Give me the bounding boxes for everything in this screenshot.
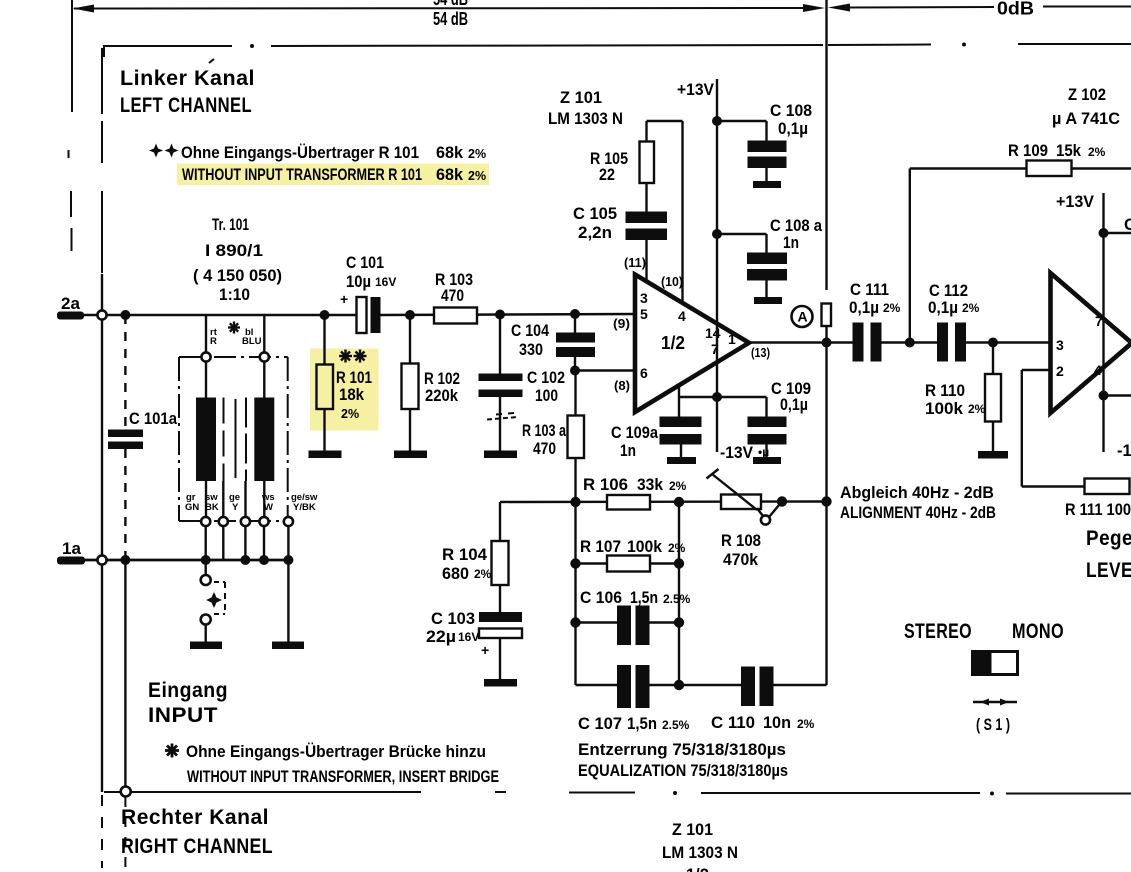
bridge dashed bracket: [214, 582, 225, 614]
svg-text:2%: 2%: [962, 301, 980, 315]
svg-text:R 103 a: R 103 a: [522, 422, 567, 440]
resistor R111: [1065, 479, 1131, 520]
resistor R105: [590, 121, 654, 212]
pin labels Z102: [1056, 313, 1103, 379]
junction dot C107 row: [674, 680, 684, 690]
highlight box R101: [310, 349, 379, 431]
connector pin circle bottom border: [121, 787, 131, 797]
svg-text:Z 101: Z 101: [560, 89, 602, 107]
secondary leads down to bus: [206, 526, 289, 560]
feedback vertical right x679: [678, 502, 680, 685]
svg-text:C 109a: C 109a: [611, 424, 659, 442]
svg-text:BLU: BLU: [242, 336, 262, 347]
svg-text:2.5%: 2.5%: [662, 718, 690, 732]
svg-text:C 105: C 105: [573, 205, 617, 223]
resistor R107: [576, 538, 686, 572]
junction dot R110: [988, 338, 998, 348]
svg-text:2%: 2%: [968, 402, 986, 416]
svg-text:2: 2: [1056, 363, 1064, 379]
svg-text:7: 7: [1095, 313, 1103, 329]
ground below C103: [484, 679, 517, 687]
svg-text:LM 1303 N: LM 1303 N: [548, 110, 623, 128]
svg-text:C 108: C 108: [770, 102, 812, 120]
svg-text:100: 100: [535, 387, 558, 405]
note Ohne Eingangs-Uebertrager R101 68k 2%: [181, 143, 486, 162]
resistor R109: [1008, 142, 1106, 176]
terminal circle bl top: [260, 352, 269, 361]
svg-text:16V: 16V: [458, 630, 479, 644]
svg-text:3: 3: [640, 290, 648, 306]
capacitor C110: [679, 667, 827, 733]
junction dot C104 node: [570, 309, 580, 319]
correction squiggle below C102: [487, 413, 518, 420]
svg-text:470: 470: [441, 287, 464, 305]
+13V rail Z102: [1102, 193, 1104, 396]
svg-text:68k: 68k: [436, 166, 464, 184]
svg-text:2%: 2%: [474, 567, 492, 581]
svg-text:R 111 100: R 111 100: [1065, 501, 1131, 519]
junction dot rail bottom: [712, 392, 722, 402]
text Eingang / INPUT: [148, 678, 228, 727]
junction dot rail C108a: [712, 229, 722, 239]
svg-text:C 107: C 107: [578, 715, 622, 733]
svg-text:1: 1: [728, 331, 736, 347]
pin labels op-amp Z101: [613, 256, 770, 393]
svg-text:470: 470: [533, 440, 556, 458]
capacitor C111: [849, 281, 901, 362]
dimension line 54 dB with arrows: [73, 4, 826, 13]
transformer primary lead rt: [205, 315, 207, 398]
ground below bridge: [190, 642, 222, 650]
svg-text:INPUT: INPUT: [148, 703, 218, 727]
svg-text:Eingang: Eingang: [148, 678, 228, 702]
capacitor C103 electrolytic: [426, 610, 522, 679]
svg-text:GN: GN: [185, 502, 199, 513]
dimension line 0 dB with arrow: [828, 4, 1131, 12]
bridge star symbol: [206, 592, 222, 608]
text Linker Kanal / LEFT CHANNEL: [120, 59, 255, 117]
connector line vertical: [101, 274, 103, 868]
stars above R101: [339, 350, 367, 363]
bridge (Bruecke) with circles: [201, 560, 211, 642]
svg-text:1n: 1n: [783, 234, 799, 252]
junction dot rail C108: [712, 116, 722, 126]
text Rechter Kanal / RIGHT CHANNEL: [121, 805, 273, 858]
svg-text:0,1µ: 0,1µ: [780, 396, 808, 414]
svg-text:22: 22: [599, 166, 615, 184]
ground below R110: [978, 451, 1008, 459]
capacitor C112: [928, 282, 980, 362]
svg-text:2a: 2a: [61, 294, 80, 313]
svg-text:2%: 2%: [1088, 145, 1106, 159]
resistor R102: [402, 315, 461, 451]
svg-text:2%: 2%: [341, 407, 359, 421]
transformer winding left: [196, 398, 216, 482]
svg-text:Y: Y: [232, 502, 239, 513]
svg-text:+13V: +13V: [677, 81, 714, 99]
junction dot R109 branch: [905, 338, 915, 348]
note diamonds: [149, 144, 179, 158]
svg-text:100k: 100k: [925, 400, 964, 418]
svg-text:470k: 470k: [723, 551, 759, 569]
label Z101 bottom: [662, 821, 738, 872]
capacitor C106: [576, 589, 691, 645]
capacitor C102: [479, 315, 566, 451]
svg-text:10µ: 10µ: [346, 273, 371, 291]
left channel dashed border box: [102, 43, 1131, 796]
node A circle: [792, 306, 813, 327]
label rt/R: [210, 327, 218, 347]
switch motion arrow: [973, 699, 1017, 706]
resistor R104: [442, 502, 509, 612]
svg-text:STEREO: STEREO: [904, 619, 972, 643]
svg-text:( S 1 ): ( S 1 ): [976, 716, 1010, 734]
svg-text:3: 3: [1056, 337, 1064, 353]
svg-text:I 890/1: I 890/1: [205, 242, 263, 260]
svg-text:(9): (9): [613, 317, 630, 331]
svg-text:LEFT CHANNEL: LEFT CHANNEL: [120, 93, 252, 117]
ground below C108: [753, 181, 781, 188]
svg-text:1n: 1n: [620, 442, 636, 460]
ground below R102: [394, 451, 427, 459]
svg-text:100k: 100k: [627, 538, 663, 556]
transformer secondary leads to bottom terminals: [206, 481, 264, 522]
svg-text:Tr. 101: Tr. 101: [212, 216, 249, 234]
svg-text:2%: 2%: [668, 541, 686, 555]
text STEREO MONO: [904, 619, 1064, 643]
svg-text:33k: 33k: [637, 476, 664, 494]
svg-text:LM 1303 N: LM 1303 N: [662, 844, 738, 862]
svg-text:4: 4: [1094, 362, 1102, 378]
secondary terminal circles: [201, 517, 293, 526]
junction dots R107 row: [570, 558, 684, 568]
wire rail2 bottom right: [1104, 394, 1131, 396]
label Z101: [548, 89, 623, 128]
svg-text:C 101: C 101: [346, 254, 384, 272]
svg-text:+: +: [481, 642, 489, 658]
svg-text:C 101a: C 101a: [129, 410, 178, 428]
highlighted note WITHOUT INPUT TRANSFORMER R101 68k 2%: [177, 164, 489, 186]
bridge note star: [165, 744, 179, 758]
svg-text:C 103: C 103: [431, 610, 475, 628]
resistor R103: [434, 271, 477, 324]
svg-text:(13): (13): [751, 346, 770, 360]
svg-text:5: 5: [640, 306, 648, 322]
transformer star symbol: [228, 322, 240, 334]
svg-text:(8): (8): [614, 379, 630, 393]
potentiometer R108: [707, 469, 783, 569]
svg-text:Rechter Kanal: Rechter Kanal: [121, 805, 269, 829]
label bl/BLU: [242, 327, 262, 347]
svg-text:Linker Kanal: Linker Kanal: [120, 66, 255, 90]
connector pin circle 1a: [97, 555, 106, 564]
junction dot feedback: [821, 496, 831, 506]
capacitor C101 electrolytic: [340, 254, 396, 333]
label Z102: [1052, 86, 1120, 128]
feedback vertical left x575: [574, 502, 576, 685]
wire main to op-amp: [380, 314, 635, 315]
svg-text:14: 14: [705, 325, 721, 341]
resistor R106: [583, 476, 687, 510]
svg-text:(10): (10): [661, 275, 683, 289]
svg-text:Abgleich 40Hz - 2dB: Abgleich 40Hz - 2dB: [840, 484, 994, 502]
transformer Tr101 dash-dot box: [179, 357, 288, 521]
svg-text:Y/BK: Y/BK: [293, 502, 316, 513]
feedback wire row: [500, 500, 827, 503]
svg-text:WITHOUT INPUT TRANSFORMER R 10: WITHOUT INPUT TRANSFORMER R 101: [182, 166, 422, 184]
svg-text:LEVE: LEVE: [1086, 558, 1131, 582]
switch S1: [972, 651, 1018, 675]
svg-text:WITHOUT INPUT TRANSFORMER, INS: WITHOUT INPUT TRANSFORMER, INSERT BRIDGE: [187, 768, 499, 786]
svg-text:1/2: 1/2: [661, 332, 685, 353]
transformer primary lead bl: [263, 315, 265, 398]
svg-text:MONO: MONO: [1012, 619, 1064, 643]
resistor R103a: [522, 371, 584, 503]
wire pin6 row: [575, 369, 635, 371]
junction dot 1a/C101a: [120, 555, 130, 565]
wire C111 to C112: [882, 341, 938, 343]
svg-text:R: R: [210, 336, 217, 347]
svg-text:22µ: 22µ: [426, 628, 456, 646]
svg-text:2,2n: 2,2n: [578, 224, 612, 242]
svg-text:C 112: C 112: [929, 282, 968, 300]
R111 feedback loop wire: [1022, 370, 1085, 487]
ground below C109a: [667, 457, 696, 464]
svg-text:18k: 18k: [339, 386, 365, 404]
svg-text:-13V: -13V: [1117, 442, 1131, 460]
svg-text:C 106: C 106: [580, 589, 622, 607]
svg-text:4: 4: [678, 308, 686, 324]
connector pin circle 2a: [97, 310, 106, 319]
ground below C109: [753, 457, 781, 464]
junction dot rail2 bottom: [1099, 391, 1109, 401]
svg-text:1:10: 1:10: [219, 286, 250, 304]
junction dot R101 tap: [320, 310, 330, 320]
secondary wire labels gr sw ge ws ge/sw: [185, 492, 318, 513]
svg-text:ALIGNMENT 40Hz - 2dB: ALIGNMENT 40Hz - 2dB: [840, 504, 996, 522]
junction dots feedback row: [570, 496, 787, 507]
ground below C108a: [754, 297, 782, 304]
svg-text:Entzerrung 75/318/3180µs: Entzerrung 75/318/3180µs: [578, 740, 786, 759]
capacitor C104: [511, 314, 595, 371]
svg-text:-13V: -13V: [720, 444, 753, 462]
svg-text:2%: 2%: [669, 479, 687, 493]
vertical line node A / boundary: [825, 0, 827, 685]
dimension boundary line left: [69, 0, 73, 251]
svg-text:0,1µ: 0,1µ: [778, 120, 808, 138]
svg-text:R 106: R 106: [583, 476, 628, 494]
wire 2a row main: [84, 314, 356, 316]
svg-text:680: 680: [442, 565, 469, 583]
op-amp U2 Z102 triangle: [1051, 273, 1131, 413]
svg-text:BK: BK: [205, 502, 219, 513]
compensation wire below op-amp: [679, 384, 767, 397]
svg-text:A: A: [798, 309, 808, 325]
svg-text:Z 102: Z 102: [1068, 86, 1106, 104]
svg-text:Ohne Eingangs-Übertrager R 101: Ohne Eingangs-Übertrager R 101: [181, 143, 419, 162]
capacitor C105: [573, 205, 667, 282]
svg-text:R 102: R 102: [424, 370, 460, 388]
terminal 1a: [57, 539, 85, 565]
connector pin rectangle: [822, 304, 832, 327]
svg-text:Ohne Eingangs-Übertrager Brück: Ohne Eingangs-Übertrager Brücke hinzu: [186, 742, 486, 761]
svg-text:Pege: Pege: [1086, 526, 1131, 550]
wire C112 to Z102 pin3: [966, 341, 1051, 343]
capacitor C109a: [611, 397, 702, 460]
text Pegel LEVEL clipped: [1086, 526, 1131, 582]
svg-text:+13V: +13V: [1056, 193, 1094, 211]
junction dot rail2 top: [1099, 228, 1109, 238]
svg-text:C 110: C 110: [711, 714, 755, 732]
resistor R101: [317, 315, 373, 451]
branch below 1a to right channel: [124, 560, 126, 868]
terminal 2a: [57, 294, 84, 320]
svg-text:0dB: 0dB: [997, 0, 1034, 19]
svg-text:54 dB: 54 dB: [433, 8, 468, 29]
svg-text:R 104: R 104: [442, 546, 488, 564]
svg-text:EQUALIZATION 75/318/3180µs: EQUALIZATION 75/318/3180µs: [578, 761, 788, 780]
junction dot R102 node: [405, 310, 415, 320]
capacitor C108a: [717, 217, 823, 297]
svg-text:1,5n: 1,5n: [630, 589, 658, 607]
-13V rail2 stub and label: [1104, 396, 1131, 461]
svg-text:RIGHT CHANNEL: RIGHT CHANNEL: [121, 834, 273, 858]
svg-text:C 108 a: C 108 a: [770, 217, 823, 235]
capacitor C101a with dashed branch: [108, 315, 178, 560]
svg-text:C 104: C 104: [511, 322, 550, 340]
svg-text:(11): (11): [624, 256, 646, 270]
svg-text:( 4 150 050): ( 4 150 050): [193, 267, 282, 285]
svg-text:R 109: R 109: [1008, 142, 1048, 160]
transformer core lines: [224, 398, 247, 482]
junction dots on bus: [201, 555, 294, 565]
svg-text:15k: 15k: [1056, 142, 1082, 160]
wire 1a bus: [85, 559, 288, 562]
transformer winding right: [254, 398, 274, 482]
svg-text:0,1µ: 0,1µ: [849, 299, 879, 317]
output wire op-amp to C111: [749, 341, 853, 343]
wire R105 top to pin10: [647, 121, 683, 303]
svg-text:330: 330: [519, 341, 543, 359]
svg-text:0,1µ: 0,1µ: [928, 299, 958, 317]
svg-text:1/2: 1/2: [686, 866, 709, 872]
svg-text:R 110: R 110: [925, 382, 965, 400]
svg-text:6: 6: [640, 365, 648, 381]
op-amp U1 Z101 1/2 triangle: [635, 275, 749, 413]
svg-text:1,5n: 1,5n: [627, 715, 657, 733]
svg-text:C: C: [1124, 216, 1131, 234]
junction dot C102 node: [495, 310, 505, 320]
wire rail2 to C113: [1104, 232, 1131, 234]
svg-text:16V: 16V: [375, 275, 396, 289]
svg-text:2%: 2%: [797, 717, 815, 731]
capacitor C109: [748, 380, 812, 457]
text Entzerrung / EQUALIZATION: [578, 740, 788, 780]
svg-text:2%: 2%: [468, 169, 486, 183]
svg-text:+: +: [340, 291, 348, 307]
svg-text:C 111: C 111: [850, 281, 889, 299]
+13V rail Z101: [716, 79, 718, 397]
svg-text:µ A 741C: µ A 741C: [1052, 110, 1120, 128]
resistor R110: [925, 343, 1001, 452]
junction dot output: [822, 338, 832, 348]
svg-text:R 108: R 108: [721, 532, 761, 550]
svg-text:W: W: [264, 502, 273, 513]
svg-text:68k: 68k: [436, 143, 464, 162]
transformer Tr101 label: [193, 216, 282, 304]
svg-text:2%: 2%: [883, 301, 901, 315]
junction dot pin6 node: [570, 366, 580, 376]
ground below R101: [309, 451, 342, 459]
svg-text:10n: 10n: [763, 714, 791, 732]
svg-text:2%: 2%: [468, 147, 486, 161]
capacitor C107: [576, 665, 690, 733]
svg-text:1a: 1a: [62, 539, 81, 558]
text Abgleich / ALIGNMENT: [840, 484, 996, 522]
junction dot 2a/C101a: [120, 310, 130, 320]
svg-text:2.5%: 2.5%: [663, 592, 691, 606]
svg-text:C 102: C 102: [527, 369, 565, 387]
ground below transformer right lead: [272, 560, 304, 649]
svg-text:R 101: R 101: [336, 369, 372, 387]
capacitor C108: [717, 102, 812, 181]
R109 branch wire: [910, 169, 1131, 343]
junction dots C106 row: [570, 617, 684, 627]
terminal circle rt top: [201, 352, 210, 361]
svg-text:220k: 220k: [425, 387, 459, 405]
-13V rail stub and label: [717, 397, 769, 462]
svg-text:R 107: R 107: [580, 538, 621, 556]
ground below C102: [484, 451, 517, 459]
svg-text:Z 101: Z 101: [672, 821, 713, 839]
